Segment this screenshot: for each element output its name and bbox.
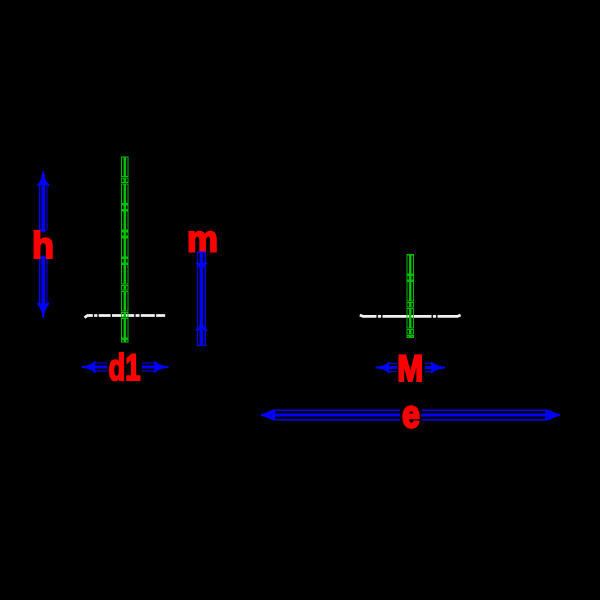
dimension line d1 (horizontal)	[81, 361, 168, 372]
centerline left view horizontal (white dash-dot)	[85, 316, 166, 318]
svg-text:M: M	[397, 348, 423, 389]
dimension line M (horizontal)	[376, 362, 445, 373]
dimension line e (long horizontal)	[261, 409, 560, 420]
svg-text:h: h	[32, 225, 54, 266]
dimension line h (vertical, left)	[38, 171, 49, 318]
svg-text:d1: d1	[109, 347, 141, 388]
svg-text:e: e	[402, 394, 420, 436]
centerline right view (green vertical dash-dot)	[407, 255, 413, 338]
dimension line m (vertical, with inward arrows)	[196, 252, 207, 345]
centerline left view (green vertical dash-dot)	[122, 157, 128, 342]
centerline right view horizontal (white dash-dot)	[360, 315, 461, 316]
